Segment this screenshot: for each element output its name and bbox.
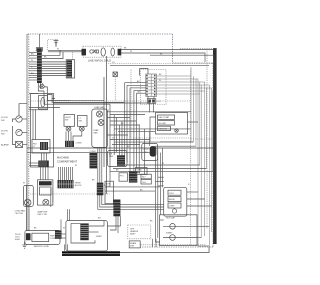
svg-text:LINE W/FOIL SHLD: LINE W/FOIL SHLD	[88, 59, 111, 63]
defrost heater dashed box	[128, 225, 151, 239]
wire ice maker to right rail top	[121, 49, 214, 51]
wire P1 upper leads	[42, 50, 63, 58]
svg-text:W: W	[31, 60, 33, 62]
connector P5	[90, 151, 98, 169]
svg-text:60HZ: 60HZ	[15, 239, 21, 241]
svg-text:RLY: RLY	[142, 177, 146, 179]
cabinet outline right dashed segment	[172, 34, 174, 63]
aux boxes	[141, 174, 151, 184]
svg-text:RUN CAP: RUN CAP	[166, 217, 176, 220]
wires k-area	[105, 187, 160, 191]
main control connector J1 dashed enclosure	[141, 70, 167, 105]
fan motor M3	[98, 120, 104, 126]
svg-text:DOOR: DOOR	[1, 117, 8, 119]
svg-text:DRAIN: DRAIN	[130, 242, 137, 245]
svg-text:ADAPTIVE: ADAPTIVE	[38, 211, 49, 214]
transformer T1 coil	[80, 223, 88, 240]
freezer light assembly	[32, 140, 50, 154]
terminal strip TB1	[58, 180, 83, 188]
lamp box L1	[64, 115, 75, 132]
svg-text:HEATER: HEATER	[130, 230, 139, 233]
wire stubs border to P1	[29, 53, 37, 81]
connector J1 (2x7 grid)	[146, 74, 157, 96]
evap fan housing	[92, 106, 108, 148]
right rail dashed vertical	[206, 49, 208, 229]
wires duct to light assy	[33, 109, 36, 140]
small label box bottom	[129, 241, 140, 248]
defrost timer B2	[38, 180, 53, 216]
svg-text:COMPARTMENT: COMPARTMENT	[57, 159, 77, 163]
cabinet outline top dashed border	[28, 33, 173, 35]
lamp box L2	[78, 116, 88, 132]
wire solid mid	[110, 64, 209, 66]
long vertical harness runs	[104, 56, 107, 194]
svg-text:ASSY: ASSY	[130, 233, 136, 236]
heavy black bar bottom	[62, 251, 120, 253]
wire drop to connector P2	[72, 52, 74, 60]
svg-text:COMP: COMP	[169, 206, 175, 208]
left exterior switch S1	[1, 104, 27, 123]
svg-text:W: W	[162, 163, 164, 165]
wires defrost block feeds	[150, 117, 198, 146]
wires into transformer top	[61, 209, 70, 230]
wire ice maker second lead	[121, 53, 205, 62]
connector P2 (8-pin)	[66, 60, 75, 78]
left exterior switch S2	[1, 129, 27, 135]
svg-text:BLOCK: BLOCK	[75, 185, 82, 187]
cabinet bottom dashed border	[140, 246, 213, 248]
svg-text:SW: SW	[65, 119, 68, 121]
staircase wires from P1 bottom	[38, 83, 70, 104]
shield dashed corner	[48, 40, 58, 51]
svg-text:SW: SW	[79, 120, 82, 122]
fresh food liner rect	[31, 94, 54, 168]
svg-text:ALARM: ALARM	[1, 144, 9, 147]
power cord assembly	[25, 230, 60, 248]
machine compartment divider 2	[27, 152, 155, 154]
svg-text:START: START	[166, 232, 173, 235]
wire bundle through P6	[98, 148, 164, 209]
wire cord to transformer	[60, 234, 66, 238]
connector P3	[65, 141, 82, 147]
wire lower lead to ice maker	[48, 51, 82, 53]
svg-text:W: W	[57, 49, 59, 51]
machine compartment lower dashed line	[30, 193, 110, 195]
start device C2	[170, 235, 176, 241]
control area enclosure	[131, 70, 191, 139]
dashed rail mid	[190, 138, 192, 245]
cabinet outline left inner solid line	[26, 34, 28, 231]
connector P8	[129, 171, 137, 182]
svg-text:FU: FU	[158, 101, 161, 103]
connector P1 (left 11-pin)	[36, 48, 42, 83]
fan motor M2	[97, 111, 103, 117]
wire solid corner right	[150, 55, 214, 243]
connector P6	[97, 183, 104, 196]
dashed link low	[191, 138, 214, 140]
wire loop above J1	[140, 69, 148, 76]
svg-text:MOTOR: MOTOR	[16, 213, 24, 215]
compressor enclosure	[160, 215, 197, 246]
ice maker heater capsule	[111, 48, 115, 56]
ice maker plug (right)	[118, 49, 122, 56]
svg-text:MACHINE: MACHINE	[57, 156, 69, 160]
relay R1	[119, 173, 128, 181]
wire border drop to P1	[39, 34, 41, 48]
svg-text:W: W	[23, 182, 25, 184]
wires bottom right verticals	[160, 220, 209, 246]
ground shield symbol (antenna)	[54, 40, 59, 48]
svg-text:EVAP: EVAP	[94, 129, 100, 132]
dashed compartment divider	[31, 100, 191, 102]
wires J1 to defrost block	[148, 96, 154, 112]
damper housing box	[108, 151, 128, 167]
wire TH1 drop	[114, 77, 116, 102]
air duct box	[39, 96, 48, 110]
transformer box	[66, 221, 108, 251]
svg-text:PTC: PTC	[120, 175, 125, 177]
heavy black bar right edge	[213, 48, 217, 244]
wire mesh center	[107, 83, 192, 187]
power cord label box	[15, 234, 21, 241]
wires from J1 right	[157, 76, 212, 94]
svg-text:W: W	[159, 80, 161, 82]
left exterior buzzer A1	[1, 119, 27, 148]
svg-text:XFMR: XFMR	[96, 236, 102, 238]
tall box left	[105, 181, 113, 204]
wires into B2	[41, 163, 49, 180]
svg-text:DMP: DMP	[109, 156, 114, 158]
svg-text:W: W	[75, 165, 77, 167]
cabinet right dashed rail	[212, 63, 214, 247]
divider solid line	[54, 102, 151, 104]
dashed wire bottom right	[141, 244, 206, 246]
svg-text:HI-LIMIT: HI-LIMIT	[159, 123, 168, 125]
ice maker plug (left)	[82, 49, 87, 56]
wire dashed feeder upper right	[180, 48, 216, 50]
wires transformer area	[107, 216, 120, 233]
connector P4	[117, 155, 125, 166]
fan motor M1	[40, 84, 44, 88]
freezer thermostat TH1	[113, 72, 118, 77]
compressor block	[164, 187, 187, 216]
svg-text:RELAY: RELAY	[169, 198, 176, 201]
wire harness P1 to P2	[42, 62, 67, 76]
svg-text:SERVICE CORD: SERVICE CORD	[34, 246, 50, 248]
wires into B1	[27, 185, 30, 231]
compressor feed verticals	[161, 148, 163, 215]
wire shielded line to ice maker	[48, 49, 82, 51]
svg-text:FAN: FAN	[136, 171, 140, 174]
compressor loop wires left	[156, 148, 164, 242]
svg-text:W: W	[63, 228, 65, 230]
wires heading right y100-104	[70, 100, 124, 104]
svg-text:CTRL: CTRL	[143, 152, 149, 154]
connector P7 under liner	[38, 161, 49, 168]
svg-text:CONN: CONN	[76, 143, 82, 145]
cabinet outline left dashed border	[28, 34, 30, 231]
wire border to duct	[29, 93, 39, 95]
connector P9	[113, 200, 120, 217]
terminal strip TB1 hatch wires	[59, 167, 73, 180]
svg-text:SENSOR: SENSOR	[159, 128, 168, 130]
svg-text:W: W	[130, 51, 132, 53]
machine compartment divider	[27, 147, 213, 149]
connector P10	[55, 230, 62, 238]
cabinet dashed run to right rail	[173, 62, 214, 64]
right rail horizontal links	[110, 142, 213, 172]
wire long dashed mid	[108, 63, 213, 65]
wires lower verticals	[65, 239, 156, 252]
wires stair extras	[29, 108, 60, 110]
wires lamps to connector P3	[66, 131, 82, 141]
wire code labels	[23, 48, 190, 230]
condenser fan motor B1	[15, 185, 34, 215]
thermostat capsule block	[142, 143, 158, 160]
ground symbol	[22, 242, 26, 249]
bottom solid border line	[63, 247, 209, 253]
svg-text:OVLD: OVLD	[169, 193, 175, 195]
ice maker motor capsule	[101, 48, 105, 56]
svg-text:DOOR: DOOR	[1, 131, 8, 133]
run capacitor C1	[170, 224, 176, 230]
svg-text:COND FAN: COND FAN	[15, 210, 26, 213]
ice maker thermostat glyphs	[90, 50, 99, 54]
svg-text:FAN: FAN	[94, 132, 98, 135]
svg-text:DEF TSTAT: DEF TSTAT	[159, 116, 170, 119]
svg-text:EVAP FAN: EVAP FAN	[95, 106, 105, 109]
svg-text:COLD: COLD	[143, 149, 149, 151]
svg-text:HTR: HTR	[130, 246, 135, 248]
wires into J1 left	[125, 83, 146, 94]
ice maker dashed box	[83, 46, 121, 57]
fuse pair F1	[147, 99, 161, 104]
defrost thermostat block	[156, 113, 188, 135]
wires light assy to P7	[42, 153, 47, 161]
right rail verticals	[191, 67, 213, 253]
svg-text:DEF CTRL: DEF CTRL	[38, 214, 49, 216]
wires TB1 left drops	[51, 188, 53, 207]
svg-text:CONN: CONN	[90, 151, 96, 153]
label box G	[136, 168, 148, 175]
wires border to P7	[29, 163, 38, 166]
compressor loop wires right	[187, 192, 212, 238]
